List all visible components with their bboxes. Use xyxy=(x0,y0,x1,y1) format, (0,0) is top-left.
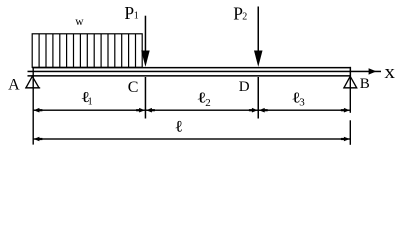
svg-text:D: D xyxy=(239,79,250,95)
beam mid line / x-axis line xyxy=(28,71,382,73)
svg-text:x: x xyxy=(384,62,395,83)
dim2 left arrow xyxy=(34,137,40,142)
svg-text:3: 3 xyxy=(299,97,305,109)
x-axis arrowhead xyxy=(369,68,377,74)
beam bottom line xyxy=(28,75,352,77)
beam right edge xyxy=(350,67,352,77)
svg-text:A: A xyxy=(8,77,20,94)
dim arrow at B xyxy=(344,108,350,113)
svg-text:2: 2 xyxy=(205,97,211,109)
support B centre line lower xyxy=(350,120,351,145)
beam top line xyxy=(32,67,351,69)
node C extension line xyxy=(145,77,147,119)
dimension line 2 (overall l) xyxy=(33,138,350,139)
support B triangle xyxy=(343,76,357,88)
support A triangle xyxy=(25,76,40,88)
svg-text:ℓ: ℓ xyxy=(175,117,183,135)
node D extension line xyxy=(258,77,260,119)
svg-text:B: B xyxy=(360,76,370,92)
dim arrows at D xyxy=(252,108,258,113)
dim2 right arrow xyxy=(344,137,350,142)
svg-text:2: 2 xyxy=(242,11,247,22)
svg-text:1: 1 xyxy=(134,11,139,22)
distributed load w box xyxy=(32,34,142,68)
force P2 arrow xyxy=(258,7,260,52)
dim arrows at C xyxy=(139,108,145,113)
svg-text:1: 1 xyxy=(88,97,93,108)
support B centre line upper xyxy=(350,76,351,113)
force P1 arrow xyxy=(145,16,147,52)
dimension line 1 (A-C-D-B) xyxy=(33,110,350,111)
support A centre line xyxy=(33,67,34,145)
svg-text:C: C xyxy=(128,79,139,96)
svg-text:w: w xyxy=(75,16,84,28)
dim arrows at A xyxy=(34,108,40,113)
